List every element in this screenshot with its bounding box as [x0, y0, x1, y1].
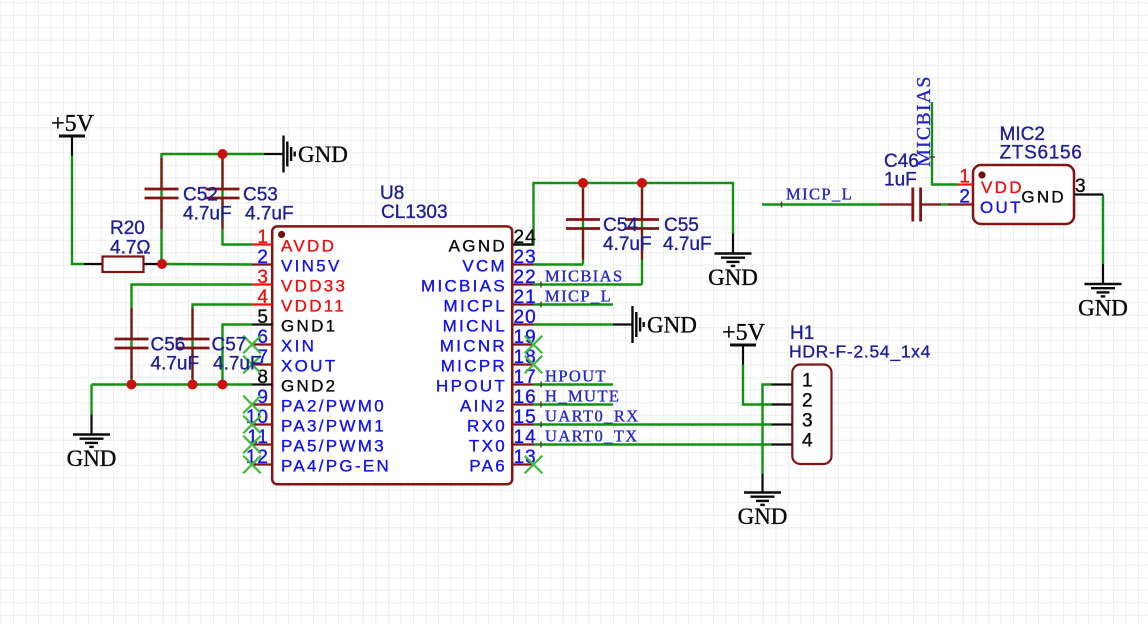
svg-text:VDD33: VDD33: [281, 277, 347, 296]
svg-text:GND: GND: [1021, 188, 1066, 207]
svg-text:23: 23: [514, 247, 537, 268]
svg-text:C57: C57: [212, 335, 247, 356]
svg-text:TX0: TX0: [469, 437, 507, 456]
svg-text:U8: U8: [380, 183, 404, 204]
svg-text:HPOUT: HPOUT: [545, 367, 607, 386]
svg-text:MICP_L: MICP_L: [786, 185, 853, 204]
svg-text:XIN: XIN: [281, 337, 316, 356]
svg-text:AIN2: AIN2: [460, 397, 507, 416]
svg-text:15: 15: [514, 407, 537, 428]
svg-text:20: 20: [514, 307, 537, 328]
svg-text:MICPR: MICPR: [441, 357, 507, 376]
svg-text:C53: C53: [243, 185, 278, 206]
svg-text:MICNL: MICNL: [443, 317, 507, 336]
svg-text:4: 4: [257, 287, 269, 308]
svg-text:21: 21: [514, 287, 537, 308]
svg-text:HDR-F-2.54_1x4: HDR-F-2.54_1x4: [789, 342, 931, 363]
svg-text:MICP_L: MICP_L: [545, 287, 612, 306]
svg-text:PA6: PA6: [469, 457, 507, 476]
svg-text:PA5/PWM3: PA5/PWM3: [281, 437, 386, 456]
svg-text:AGND: AGND: [449, 237, 507, 256]
svg-text:4.7uF: 4.7uF: [151, 354, 200, 375]
svg-text:GND: GND: [67, 446, 117, 471]
svg-text:PA4/PG-EN: PA4/PG-EN: [281, 457, 391, 476]
svg-text:ZTS6156: ZTS6156: [1000, 143, 1083, 164]
svg-text:CL1303: CL1303: [381, 202, 448, 223]
svg-text:4.7uF: 4.7uF: [663, 234, 712, 255]
svg-text:UART0_TX: UART0_TX: [545, 427, 639, 446]
svg-text:GND: GND: [298, 142, 348, 167]
svg-text:16: 16: [514, 387, 537, 408]
svg-text:1: 1: [802, 371, 814, 392]
svg-text:1uF: 1uF: [884, 170, 917, 191]
svg-text:PA3/PWM1: PA3/PWM1: [281, 417, 386, 436]
svg-text:2: 2: [959, 187, 971, 208]
svg-text:GND1: GND1: [281, 317, 337, 336]
svg-text:GND2: GND2: [281, 377, 337, 396]
svg-text:GND: GND: [738, 504, 788, 529]
svg-text:22: 22: [514, 267, 537, 288]
svg-text:VDD11: VDD11: [281, 297, 346, 316]
svg-text:VDD: VDD: [981, 178, 1024, 197]
svg-text:1: 1: [959, 167, 971, 188]
svg-text:RX0: RX0: [467, 417, 507, 436]
svg-text:4.7Ω: 4.7Ω: [110, 238, 151, 259]
svg-text:C56: C56: [151, 335, 186, 356]
svg-text:MICBIAS: MICBIAS: [913, 75, 935, 167]
svg-text:MICPL: MICPL: [444, 297, 507, 316]
svg-text:PA2/PWM0: PA2/PWM0: [281, 397, 386, 416]
svg-text:GND: GND: [647, 313, 697, 338]
svg-text:4.7uF: 4.7uF: [183, 204, 232, 225]
svg-text:+5V: +5V: [722, 320, 766, 346]
svg-text:C55: C55: [664, 215, 699, 236]
svg-text:VCM: VCM: [462, 257, 507, 276]
svg-text:UART0_RX: UART0_RX: [545, 407, 640, 426]
svg-text:HPOUT: HPOUT: [436, 377, 507, 396]
svg-text:GND: GND: [1078, 296, 1128, 321]
svg-text:C54: C54: [603, 215, 638, 236]
svg-text:1: 1: [257, 227, 269, 248]
svg-text:AVDD: AVDD: [281, 237, 336, 256]
svg-text:5: 5: [257, 307, 269, 328]
svg-text:4: 4: [802, 431, 814, 452]
svg-text:OUT: OUT: [980, 198, 1023, 217]
svg-text:3: 3: [257, 267, 269, 288]
svg-text:XOUT: XOUT: [281, 357, 337, 376]
svg-text:R20: R20: [110, 218, 145, 239]
svg-text:24: 24: [514, 227, 537, 248]
svg-text:14: 14: [514, 427, 537, 448]
svg-text:4.7uF: 4.7uF: [213, 354, 262, 375]
svg-text:MICBIAS: MICBIAS: [545, 267, 624, 286]
svg-text:MICBIAS: MICBIAS: [421, 277, 507, 296]
svg-text:2: 2: [802, 391, 814, 412]
svg-text:4.7uF: 4.7uF: [603, 234, 652, 255]
svg-text:+5V: +5V: [51, 111, 95, 137]
svg-text:H_MUTE: H_MUTE: [545, 387, 620, 406]
svg-text:17: 17: [514, 367, 537, 388]
svg-text:VIN5V: VIN5V: [281, 257, 342, 276]
svg-text:MICNR: MICNR: [440, 337, 507, 356]
svg-text:4.7uF: 4.7uF: [245, 204, 294, 225]
svg-text:GND: GND: [708, 265, 758, 290]
svg-text:C52: C52: [183, 185, 218, 206]
svg-text:3: 3: [1075, 176, 1087, 197]
svg-text:3: 3: [802, 411, 814, 432]
svg-text:2: 2: [257, 247, 269, 268]
